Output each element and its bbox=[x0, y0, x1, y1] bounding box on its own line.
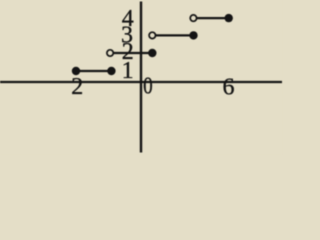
svg-text:2: 2 bbox=[71, 74, 83, 100]
closed endpoint dot at right of y=4 bbox=[225, 14, 233, 22]
x tick label 6 bbox=[223, 74, 235, 100]
svg-text:6: 6 bbox=[223, 74, 235, 100]
x tick label 2 bbox=[71, 74, 83, 100]
svg-text:1: 1 bbox=[122, 58, 134, 84]
x tick label 0 at origin bbox=[143, 72, 153, 99]
y tick label 3 bbox=[121, 23, 133, 49]
step segment y=3 wire bbox=[152, 34, 193, 36]
open endpoint circle at left of y=4 bbox=[190, 15, 196, 21]
closed endpoint dot at right of y=3 bbox=[189, 31, 197, 39]
step segment y=2 wire bbox=[110, 52, 152, 54]
closed endpoint dot at right of y=2 bbox=[148, 49, 156, 57]
y tick label 4 bbox=[122, 6, 134, 32]
closed endpoint dot at left of y=1 bbox=[72, 67, 80, 75]
svg-text:0: 0 bbox=[143, 72, 153, 99]
step segment y=4 wire bbox=[193, 17, 228, 19]
y tick label 2 bbox=[122, 39, 134, 65]
open endpoint circle at left of y=2 bbox=[107, 50, 113, 56]
open endpoint circle at left of y=3 bbox=[149, 32, 155, 38]
step segment y=1 wire bbox=[76, 70, 111, 72]
closed endpoint dot at right of y=1 bbox=[107, 67, 115, 75]
y-axis bbox=[140, 2, 142, 153]
x-axis bbox=[0, 81, 282, 83]
y tick label 1 bbox=[122, 58, 134, 84]
